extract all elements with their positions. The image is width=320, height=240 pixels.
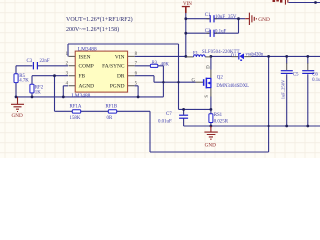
- svg-text:40K: 40K: [161, 62, 170, 67]
- svg-text:R3: R3: [152, 59, 158, 64]
- svg-text:RF1B: RF1B: [106, 104, 118, 109]
- svg-text:COMP: COMP: [79, 64, 94, 70]
- svg-text:0.1uF: 0.1uF: [215, 30, 227, 35]
- svg-text:S: S: [205, 95, 210, 98]
- svg-text:DR: DR: [117, 74, 125, 80]
- svg-text:Q2: Q2: [217, 76, 224, 81]
- svg-text:VIN: VIN: [183, 2, 192, 7]
- svg-text:D1: D1: [231, 52, 236, 57]
- svg-text:ISEN: ISEN: [79, 54, 91, 60]
- svg-text:0.1uF: 0.1uF: [312, 78, 320, 83]
- svg-text:158K: 158K: [70, 116, 81, 121]
- svg-text:C3: C3: [27, 59, 33, 64]
- svg-text:AGND: AGND: [79, 84, 95, 90]
- svg-text:VIN: VIN: [115, 54, 125, 60]
- svg-text:0R: 0R: [107, 116, 113, 121]
- svg-text:200V~=1.26*(1+158): 200V~=1.26*(1+158): [66, 26, 119, 33]
- svg-text:GND: GND: [12, 113, 23, 119]
- svg-text:C5: C5: [293, 72, 299, 77]
- svg-text:0.025R: 0.025R: [214, 120, 229, 125]
- svg-text:4.7K: 4.7K: [19, 79, 29, 84]
- svg-text:PGND: PGND: [110, 84, 125, 90]
- svg-text:C7: C7: [166, 112, 172, 117]
- svg-text:C6: C6: [312, 72, 318, 77]
- svg-text:VOUT=1.26*(1+RF1/RF2): VOUT=1.26*(1+RF1/RF2): [66, 16, 133, 23]
- svg-text:35V: 35V: [228, 15, 237, 20]
- svg-text:FA/SYNC: FA/SYNC: [102, 64, 125, 70]
- svg-text:vssb430n: vssb430n: [246, 53, 264, 58]
- svg-text:0.01uF: 0.01uF: [158, 119, 172, 124]
- svg-text:LM3488: LM3488: [78, 46, 97, 52]
- svg-text:LM3488: LM3488: [72, 93, 91, 99]
- svg-text:RF1A: RF1A: [70, 104, 82, 109]
- svg-text:DMN3404SDXL: DMN3404SDXL: [216, 84, 249, 89]
- svg-text:GND: GND: [258, 17, 270, 23]
- svg-text:22nF: 22nF: [40, 59, 50, 64]
- svg-text:RS1: RS1: [214, 113, 223, 118]
- svg-text:10uF: 10uF: [215, 15, 225, 20]
- svg-text:F1: F1: [193, 52, 199, 57]
- svg-text:C2: C2: [205, 29, 211, 34]
- svg-text:GND: GND: [205, 143, 216, 149]
- svg-text:1uF_250V: 1uF_250V: [280, 79, 285, 99]
- svg-text:1K: 1K: [35, 90, 41, 95]
- svg-text:FB: FB: [79, 74, 86, 80]
- svg-text:C1: C1: [205, 13, 211, 18]
